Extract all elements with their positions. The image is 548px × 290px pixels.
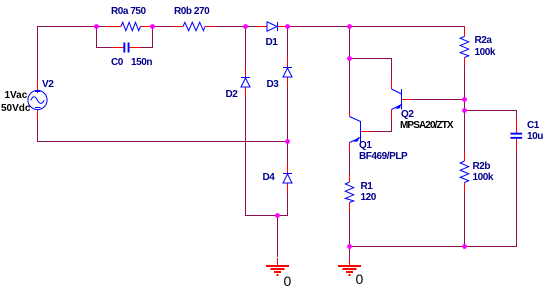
label C0 bbox=[111, 58, 123, 68]
junction bridge ground node bbox=[275, 213, 280, 218]
diode D3 bbox=[283, 57, 292, 87]
label 1Vac bbox=[5, 91, 28, 101]
junction top rail Q1 branch node bbox=[347, 24, 352, 29]
resistor R0b bbox=[173, 22, 214, 30]
wire D3 D4 column x=287 bbox=[287, 27, 289, 217]
wire Q2 collector branch y=58 bbox=[350, 59, 393, 80]
wire Q2 emitter to Q1 base bbox=[371, 120, 392, 133]
wire Q1 column x=349 bbox=[349, 27, 351, 259]
junction C1 branch node bbox=[462, 108, 467, 113]
label V2 bbox=[42, 80, 53, 90]
label Q1 bbox=[359, 141, 371, 151]
label D3 bbox=[267, 80, 279, 90]
wire bottom rail y=246 bbox=[350, 246, 518, 248]
label Q2 bbox=[401, 110, 413, 120]
junction D1 cathode node bbox=[285, 24, 290, 29]
label D1 bbox=[266, 38, 278, 48]
label C1 bbox=[527, 121, 539, 131]
capacitor C0 bbox=[113, 43, 140, 53]
label 50Vdc bbox=[1, 104, 30, 114]
label D2 bbox=[226, 90, 238, 100]
label R2a value bbox=[475, 48, 495, 58]
diode D2 bbox=[241, 67, 250, 97]
source V2 bbox=[28, 80, 47, 120]
resistor R2a bbox=[460, 27, 469, 66]
label R0a value bbox=[111, 7, 146, 17]
label R1 value bbox=[361, 193, 376, 203]
capacitor C1 bbox=[511, 118, 523, 151]
diode D1 bbox=[256, 22, 287, 31]
junction R0a left node bbox=[94, 24, 99, 29]
label ground 0 left bbox=[284, 275, 292, 287]
label R2b value bbox=[473, 173, 493, 183]
wire left source column x=37 bbox=[37, 27, 39, 143]
label D4 bbox=[263, 173, 275, 183]
junction D3 D4 mid node bbox=[285, 139, 290, 144]
junction Q2 base R2 node bbox=[462, 97, 467, 102]
label Q2 model bbox=[400, 121, 453, 131]
resistor R0a bbox=[106, 22, 151, 30]
junction D2 top node bbox=[243, 24, 248, 29]
label C0 value bbox=[131, 58, 152, 68]
wire bottom return y=141 bbox=[37, 141, 288, 143]
label R0b value bbox=[174, 7, 209, 17]
label ground 0 right bbox=[356, 273, 364, 285]
wire Q2 base to R2 node y=99 bbox=[412, 99, 465, 101]
junction R0a right node bbox=[150, 24, 155, 29]
resistor R2b bbox=[460, 151, 469, 193]
diode D4 bbox=[283, 162, 292, 194]
ground left bbox=[266, 258, 289, 275]
label R1 bbox=[361, 182, 373, 192]
label R2b bbox=[473, 162, 491, 172]
junction bottom rail ground node bbox=[347, 244, 352, 249]
label Q1 model bbox=[359, 152, 407, 162]
label R2a bbox=[475, 36, 492, 46]
wire top rail y=26 from source to R2a corner bbox=[37, 26, 465, 28]
wire C1 branch x=516 y=110 bbox=[465, 111, 518, 248]
wire C0 branch bbox=[96, 27, 153, 48]
junction R2b bottom node bbox=[462, 244, 467, 249]
transistor Q2 bbox=[392, 79, 413, 120]
wire R2 column x=464 bbox=[464, 27, 466, 248]
ground right bbox=[338, 258, 361, 275]
wire bridge bottom y=215 bbox=[245, 216, 288, 258]
resistor R1 bbox=[345, 174, 353, 213]
transistor Q1 bbox=[350, 111, 372, 153]
junction Q2 collector branch node bbox=[347, 56, 352, 61]
label C1 value bbox=[527, 132, 543, 142]
wire D2 column x=245 bbox=[245, 27, 247, 217]
